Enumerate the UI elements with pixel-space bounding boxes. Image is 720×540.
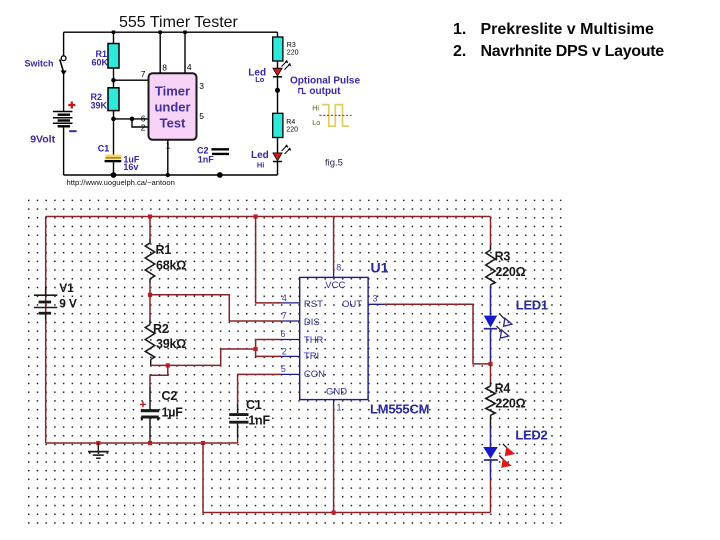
title "555 Timer Tester" — [119, 14, 239, 31]
capacitor C1 1uF 16v — [105, 119, 122, 175]
label 9Volt — [30, 134, 55, 146]
node junction pulse output — [275, 88, 280, 93]
svg-text:8: 8 — [336, 262, 341, 272]
resistor R3 220 (bottom) — [486, 217, 495, 285]
label Lo — [255, 75, 265, 84]
wire RST — [256, 217, 281, 303]
pin number 5 — [199, 111, 204, 121]
svg-text:68kΩ: 68kΩ — [156, 258, 186, 272]
svg-text:RST: RST — [304, 299, 323, 310]
svg-text:LM555CM: LM555CM — [370, 402, 429, 417]
pin number 4 — [187, 62, 192, 72]
node junction R1-R2 — [111, 78, 116, 83]
pin number 2 — [141, 123, 146, 133]
label Switch — [25, 58, 54, 68]
wire VCC — [333, 217, 335, 272]
label 220 (R3) — [287, 50, 299, 57]
wire DIS — [150, 295, 281, 321]
svg-text:R2: R2 — [153, 322, 169, 336]
waveform square wave — [322, 105, 349, 127]
label 1nF (bottom) — [248, 414, 270, 428]
waveform baseline dashed — [319, 114, 351, 116]
node junction R2 bottom — [166, 363, 170, 367]
wire mid rail — [46, 442, 238, 444]
label 16v — [123, 162, 138, 172]
svg-text:TRI: TRI — [304, 351, 319, 362]
wire LED2 to bottom rail — [490, 480, 492, 513]
label 9 V — [59, 296, 77, 310]
svg-text:9Volt: 9Volt — [30, 134, 55, 146]
label C1 — [98, 143, 110, 153]
label Hi (waveform) — [312, 106, 319, 113]
node junction top rail at pin8 column — [159, 31, 162, 34]
pin number 1 — [166, 140, 171, 150]
svg-text:6: 6 — [281, 329, 286, 339]
svg-text:1: 1 — [166, 140, 171, 150]
node junction bottom rail at pin1 — [166, 173, 170, 177]
op-amp U1 LM555CM chip — [281, 271, 385, 405]
svg-text:C1: C1 — [246, 398, 262, 412]
pin number 2 (bottom) — [282, 347, 287, 357]
wire THR-TRI bracket — [256, 340, 281, 357]
wire GND drop — [333, 405, 335, 513]
wire pin7 — [114, 79, 149, 81]
label 60K — [92, 58, 109, 68]
label R1 — [96, 49, 108, 59]
grid dots background — [28, 200, 568, 527]
svg-text:CON: CON — [304, 369, 325, 380]
node junction bottom drop — [201, 441, 205, 445]
svg-text:7: 7 — [282, 311, 287, 321]
svg-text:7: 7 — [141, 69, 146, 79]
wire pin1 — [167, 140, 169, 175]
label battery minus — [69, 130, 76, 132]
pin number 6 (bottom) — [281, 329, 286, 339]
pin number 8 — [162, 63, 167, 73]
wire CON to C1 — [238, 374, 281, 404]
svg-text:1µF: 1µF — [162, 405, 184, 419]
label fig.5 — [325, 157, 343, 168]
resistor R1 60K — [108, 32, 119, 80]
svg-text:GND: GND — [326, 387, 347, 398]
pin number 3 (bottom) — [373, 293, 378, 303]
wire left rail — [45, 217, 47, 444]
svg-text:2: 2 — [282, 347, 287, 357]
svg-text:R4: R4 — [286, 119, 295, 126]
wire left rail lower — [63, 127, 65, 175]
pin number 7 (bottom) — [282, 311, 287, 321]
svg-text:220Ω: 220Ω — [495, 396, 525, 410]
pin number 3 — [199, 81, 204, 91]
svg-text:2: 2 — [141, 123, 146, 133]
label url — [67, 178, 175, 187]
svg-text:output: output — [309, 86, 341, 97]
svg-text:1.: 1. — [453, 21, 466, 38]
svg-text:C2: C2 — [162, 389, 178, 403]
node junction top rail R1 — [148, 214, 152, 218]
resistor R4 220 (bottom) — [486, 364, 495, 428]
pin number 1 (bottom) — [337, 403, 342, 413]
wire pin6 — [114, 118, 149, 120]
pulse glyph — [299, 89, 306, 94]
label 1uF (bottom) — [162, 405, 184, 419]
node junction ground — [96, 441, 100, 445]
label Lo (waveform) — [312, 120, 320, 127]
node junction top rail VCC — [231, 213, 233, 215]
label Hi — [257, 160, 265, 169]
svg-text:OUT: OUT — [342, 299, 362, 310]
label LED1 — [516, 297, 548, 312]
ground symbol — [88, 443, 109, 458]
svg-text:555 Timer Tester: 555 Timer Tester — [119, 14, 239, 31]
label 1nF — [198, 155, 215, 165]
wire LED Hi to bottom rail — [277, 162, 279, 176]
label 220ohm (R3 bottom) — [495, 265, 525, 279]
label 1uF — [123, 154, 140, 164]
svg-text:3: 3 — [373, 293, 378, 303]
svg-text:2.: 2. — [453, 43, 466, 60]
resistor R1 68k — [145, 217, 154, 295]
label Optional Pulse — [290, 76, 360, 87]
capacitor C2 1uF — [141, 387, 159, 443]
svg-text:R1: R1 — [156, 243, 172, 257]
wire LED Lo to R4 — [277, 77, 279, 113]
resistor R2 39K — [108, 80, 119, 119]
svg-text:R4: R4 — [495, 381, 511, 395]
label R4 — [286, 119, 295, 126]
resistor R2 39k — [145, 295, 154, 366]
wire switch to battery — [63, 75, 65, 112]
svg-text:Lo: Lo — [255, 75, 265, 84]
label C1 (bottom) — [246, 398, 262, 412]
svg-text:Lo: Lo — [312, 120, 320, 127]
label U1 — [371, 259, 389, 275]
svg-text:8: 8 — [162, 63, 167, 73]
wire pin8 — [159, 32, 161, 73]
svg-text:THR: THR — [304, 335, 324, 346]
label 220ohm (R4 bottom) — [495, 396, 525, 410]
svg-text:1nF: 1nF — [248, 414, 270, 428]
wire C2 drop — [150, 365, 168, 387]
wire OUT — [385, 304, 491, 364]
LED Hi — [273, 144, 291, 161]
pin number 5 (bottom) — [281, 364, 286, 374]
node junction top rail at R1 column — [112, 31, 115, 34]
svg-text:4: 4 — [282, 293, 287, 303]
svg-text:3: 3 — [199, 81, 204, 91]
capacitor C2 1nF (top schematic) — [211, 149, 229, 154]
svg-text:Timer: Timer — [155, 84, 190, 99]
pin number 7 — [141, 69, 146, 79]
LED1 — [484, 285, 512, 364]
wire R2 bottom to THR/TRI — [151, 349, 256, 365]
resistor R4 220 — [273, 113, 283, 153]
svg-text:Hi: Hi — [312, 106, 319, 113]
svg-text:220: 220 — [286, 127, 298, 134]
node junction C2 bottom — [148, 441, 152, 445]
label Led (Hi) — [251, 150, 269, 161]
label battery plus — [68, 102, 75, 109]
wire top rail — [64, 31, 278, 33]
label R3 — [287, 42, 296, 49]
node junction R2-C1 — [111, 117, 116, 122]
label C2 — [197, 146, 209, 156]
svg-text:LED2: LED2 — [515, 427, 547, 442]
label C2 plus — [140, 402, 146, 408]
svg-text:VCC: VCC — [325, 280, 345, 291]
svg-text:220Ω: 220Ω — [495, 265, 525, 279]
label 39K — [91, 101, 108, 111]
node junction OUT-R4 — [488, 362, 492, 366]
node junction pin2 tap — [130, 117, 135, 122]
svg-text:R3: R3 — [287, 42, 296, 49]
pin number 4 (bottom) — [282, 293, 287, 303]
svg-text:39K: 39K — [91, 101, 108, 111]
node junction GND bottom — [332, 510, 336, 514]
node junction THR-TRI — [254, 347, 258, 351]
svg-text:Navrhnite DPS v Layoute: Navrhnite DPS v Layoute — [481, 43, 665, 60]
svg-text:DIS: DIS — [304, 317, 320, 328]
svg-text:U1: U1 — [371, 259, 389, 275]
svg-text:R3: R3 — [495, 249, 511, 263]
svg-text:under: under — [154, 100, 190, 115]
svg-text:220: 220 — [287, 50, 299, 57]
label output — [309, 86, 341, 97]
label V1 — [59, 281, 74, 295]
label 68kohm — [156, 258, 186, 272]
wire pin4 — [184, 32, 186, 73]
svg-text:Hi: Hi — [257, 160, 265, 169]
battery V1 9V — [34, 287, 57, 321]
LED Lo — [273, 60, 291, 77]
pin number 6 — [141, 113, 146, 123]
svg-text:http://www.uoguelph.ca/~antoon: http://www.uoguelph.ca/~antoon — [67, 178, 175, 187]
label LM555CM — [370, 402, 429, 417]
svg-text:Prekreslite v Multisime: Prekreslite v Multisime — [481, 21, 655, 38]
svg-text:LED1: LED1 — [516, 297, 548, 312]
label 220 (R4) — [286, 127, 298, 134]
svg-text:Optional Pulse: Optional Pulse — [290, 76, 360, 87]
svg-text:5: 5 — [199, 111, 204, 121]
node junction bottom rail at C1 — [111, 172, 117, 178]
wire bottom rail (bottom schematic) — [203, 443, 491, 513]
svg-text:1: 1 — [337, 403, 342, 413]
label R1 (bottom) — [156, 243, 172, 257]
heading line 2 — [453, 43, 664, 60]
svg-text:9 V: 9 V — [59, 296, 77, 310]
LED2 — [483, 428, 515, 480]
label R3 (bottom) — [495, 249, 511, 263]
svg-text:16v: 16v — [123, 162, 138, 172]
node junction R1-R2-DIS — [148, 293, 152, 297]
pin number 8 (bottom) — [336, 262, 341, 272]
label Led (Lo) — [248, 68, 266, 79]
resistor R3 220 — [273, 32, 283, 68]
wire top rail — [46, 216, 491, 218]
wire bottom rail — [64, 174, 278, 176]
svg-text:60K: 60K — [92, 58, 109, 68]
capacitor C1 1nF (bottom) — [229, 404, 248, 443]
wire pin2 — [132, 119, 149, 127]
node junction top rail at pin4 column — [183, 31, 186, 34]
svg-text:1nF: 1nF — [198, 155, 215, 165]
wire left rail upper — [63, 32, 65, 55]
svg-text:5: 5 — [281, 364, 286, 374]
svg-text:4: 4 — [187, 62, 192, 72]
switch S1 — [60, 56, 67, 75]
label C2 (bottom) — [162, 389, 178, 403]
svg-text:Switch: Switch — [25, 58, 54, 68]
label R4 (bottom) — [495, 381, 511, 395]
svg-text:39kΩ: 39kΩ — [156, 337, 186, 351]
svg-text:fig.5: fig.5 — [325, 157, 343, 168]
svg-text:V1: V1 — [59, 281, 74, 295]
node junction bottom rail at C2 — [217, 172, 223, 178]
heading line 1 — [453, 21, 654, 38]
label R2 — [91, 92, 103, 102]
label LED2 — [515, 427, 547, 442]
svg-text:C1: C1 — [98, 143, 110, 153]
battery 9V — [53, 112, 73, 127]
svg-text:Test: Test — [160, 116, 186, 131]
label R2 (bottom) — [153, 322, 169, 336]
op-amp U1 timer under test box — [149, 73, 197, 140]
label 39kohm — [156, 337, 186, 351]
node junction top rail RST — [254, 214, 258, 218]
